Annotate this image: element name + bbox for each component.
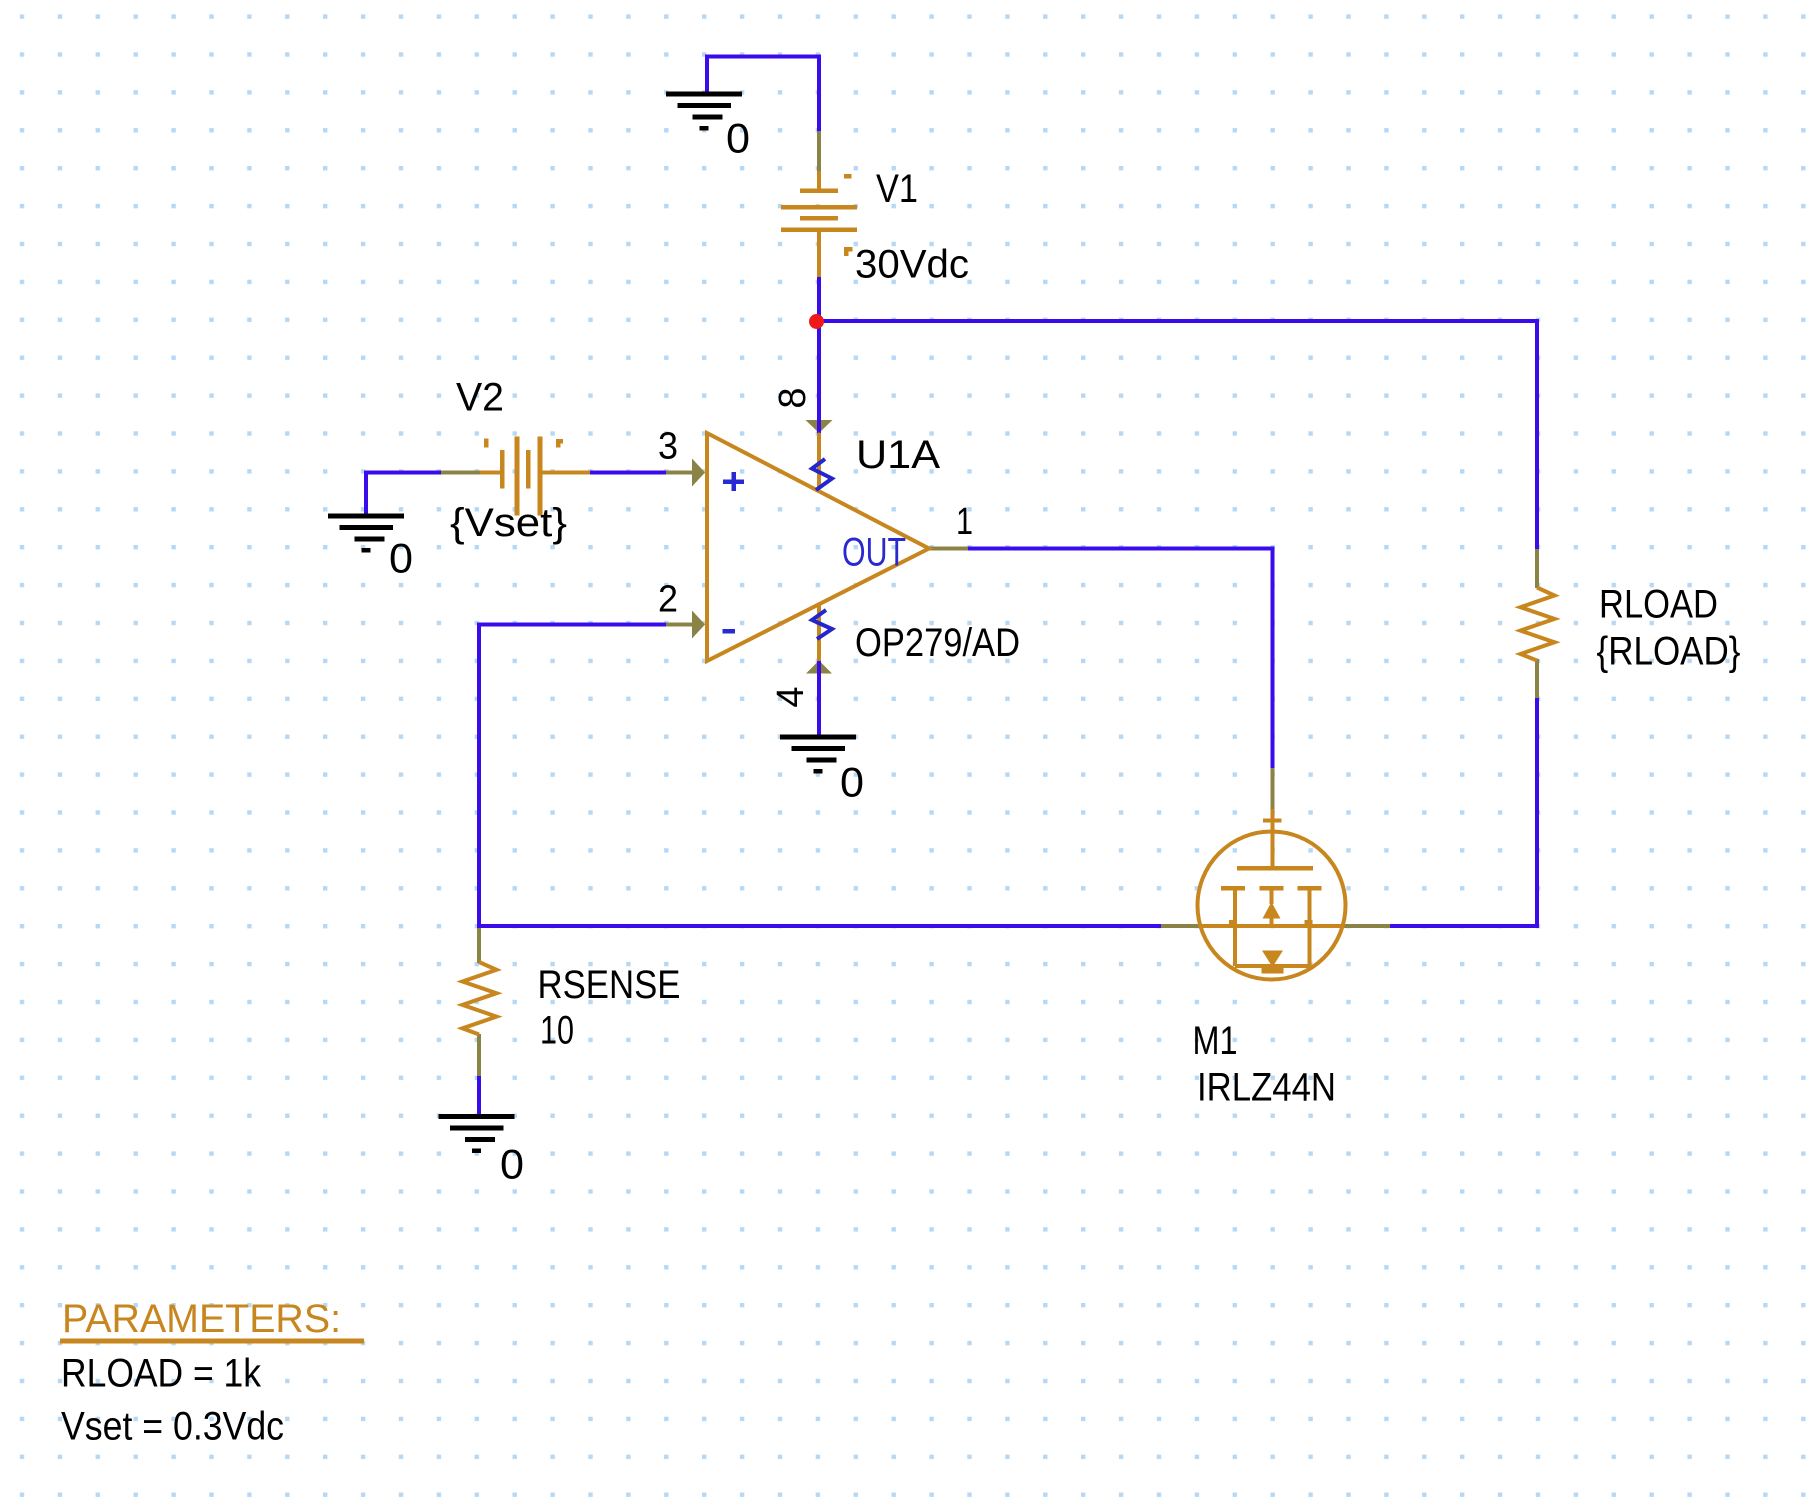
pin stub MOSFET drain (right)	[1344, 924, 1390, 928]
pin stub op-amp pin 3	[666, 471, 693, 475]
wire: RSENSE bottom to ground	[477, 1076, 481, 1115]
svg-text:V2: V2	[456, 376, 504, 420]
wire: op-amp output to MOSFET gate	[968, 549, 1273, 769]
op-amp pin 2 arrowhead	[692, 611, 705, 639]
svg-text:OP279/AD: OP279/AD	[855, 621, 1020, 665]
pin stub MOSFET gate	[1271, 768, 1275, 810]
svg-text:RLOAD: RLOAD	[1599, 583, 1718, 627]
wire: V1 minus to junction	[817, 276, 821, 322]
wire: V2 plus to op-amp pin 3	[589, 471, 667, 475]
svg-text:IRLZ44N: IRLZ44N	[1197, 1066, 1336, 1110]
PARAMETERS underline	[60, 1339, 364, 1344]
pin stub op-amp pin 2	[666, 623, 693, 627]
op-amp pin 8 power pin line	[817, 433, 821, 489]
pin stub RSENSE bottom	[477, 1034, 481, 1076]
svg-text:U1A: U1A	[856, 433, 940, 477]
svg-text:0: 0	[840, 759, 864, 806]
ground 0 (top, V1)	[666, 92, 742, 131]
wire: MOSFET source to feedback and op-amp pin 2	[479, 625, 1161, 927]
svg-text:0: 0	[389, 535, 413, 582]
svg-text:8: 8	[772, 387, 814, 408]
svg-text:0: 0	[726, 115, 750, 162]
op-amp U1A triangle	[707, 433, 929, 661]
svg-text:4: 4	[770, 686, 812, 707]
svg-text:0: 0	[500, 1141, 524, 1188]
ground 0 (RSENSE)	[439, 1114, 515, 1153]
pin stub RLOAD top	[1535, 549, 1539, 588]
wire: ground to V1 plus (top left corner run)	[707, 57, 819, 134]
battery V2 (Vset source)	[480, 437, 590, 516]
resistor RLOAD zigzag	[1521, 588, 1555, 661]
op-amp pin 3 arrowhead	[692, 459, 705, 487]
MOSFET M1	[1198, 809, 1346, 980]
svg-text:10: 10	[540, 1009, 574, 1053]
svg-text:RSENSE: RSENSE	[538, 963, 681, 1007]
wire: op-amp pin 4 to ground	[817, 660, 821, 735]
op-amp pin 8 arrowhead (V+)	[806, 420, 833, 433]
op-amp minus input marker	[723, 629, 736, 634]
wire: RLOAD bottom to MOSFET drain	[1388, 697, 1537, 926]
wire core through pin 4 arrowhead	[817, 661, 821, 675]
ground 0 (V2)	[328, 514, 404, 553]
pin stub MOSFET source (left)	[1161, 924, 1199, 928]
op-amp pin 4 power pin line	[817, 605, 821, 661]
wire: V2 minus to ground	[366, 473, 441, 515]
svg-text:M1: M1	[1193, 1019, 1238, 1063]
pin stub RLOAD bottom	[1535, 659, 1539, 698]
svg-text:V1: V1	[876, 167, 918, 211]
svg-text:1: 1	[956, 501, 973, 543]
pin stub V1 top	[817, 131, 821, 171]
svg-text:2: 2	[658, 579, 678, 621]
pin stub op-amp output pin 1	[929, 547, 968, 551]
op-amp pin 4 arrowhead (V-)	[806, 661, 832, 674]
wire: junction to RLOAD top	[817, 321, 1537, 550]
svg-text:OUT: OUT	[842, 531, 906, 575]
wire core through pin 8 arrowhead	[817, 419, 821, 432]
op-amp plus input marker	[723, 472, 744, 491]
wire: V+ rail to op-amp pin 8	[817, 321, 821, 433]
op-amp pin 8 power squiggle	[812, 459, 832, 490]
svg-text:RLOAD = 1k: RLOAD = 1k	[61, 1352, 262, 1396]
resistor RSENSE zigzag	[463, 962, 497, 1035]
svg-text:{RLOAD}: {RLOAD}	[1597, 630, 1741, 674]
svg-text:{Vset}: {Vset}	[450, 501, 567, 545]
pin stub V2 left	[441, 471, 481, 475]
ground 0 (op-amp pin 4)	[780, 735, 856, 774]
svg-text:3: 3	[658, 426, 678, 468]
svg-text:30Vdc: 30Vdc	[855, 243, 969, 287]
pin stub RSENSE top	[477, 928, 481, 963]
battery V1 (30Vdc source)	[781, 171, 857, 277]
svg-text:PARAMETERS:: PARAMETERS:	[62, 1297, 341, 1341]
op-amp pin 4 power squiggle	[812, 610, 832, 639]
junction dot (V1 / RLOAD / pin8 node)	[809, 314, 824, 329]
svg-text:Vset = 0.3Vdc: Vset = 0.3Vdc	[61, 1405, 284, 1449]
